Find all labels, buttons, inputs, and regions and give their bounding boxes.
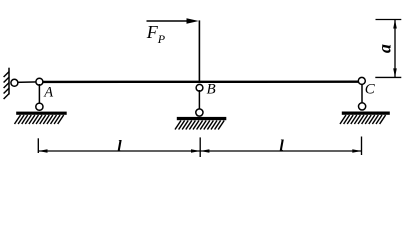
- hinge C: [358, 77, 365, 84]
- svg-text:a: a: [375, 44, 395, 53]
- lower hinge at A: [36, 103, 43, 110]
- vertical arm at B: [198, 20, 200, 83]
- dimension a: extension ticks and line: [375, 20, 401, 78]
- bottom dimension: extension lines and dimension line: [38, 137, 361, 158]
- horizontal link wall-A: [15, 81, 39, 84]
- beam A-C: [39, 80, 362, 83]
- force F_P arrow: [147, 18, 199, 23]
- link support at A: [38, 84, 40, 104]
- hinge A: [36, 78, 43, 85]
- link support at C: [361, 84, 363, 104]
- dimension a: arrowheads: [393, 20, 397, 78]
- lower hinge at C: [359, 103, 366, 110]
- ground hatching at C: [340, 115, 386, 124]
- lower hinge at B: [196, 109, 203, 116]
- ground hatching at A: [15, 115, 64, 124]
- svg-text:C: C: [365, 82, 376, 98]
- ground bar at A: [16, 112, 66, 115]
- wall (left fixed surface): [4, 68, 10, 99]
- bottom dimension arrowheads: [38, 149, 361, 153]
- svg-text:A: A: [43, 85, 53, 101]
- ground bar at B: [177, 117, 227, 120]
- link support at B: [198, 90, 200, 110]
- ground hatching at B: [175, 121, 224, 130]
- svg-text:B: B: [207, 82, 216, 98]
- svg-text:l: l: [117, 138, 122, 155]
- svg-text:FP: FP: [146, 22, 166, 46]
- pin at wall: [11, 79, 18, 86]
- svg-text:l: l: [279, 138, 284, 155]
- hinge B: [196, 84, 203, 91]
- ground bar at C: [342, 112, 390, 115]
